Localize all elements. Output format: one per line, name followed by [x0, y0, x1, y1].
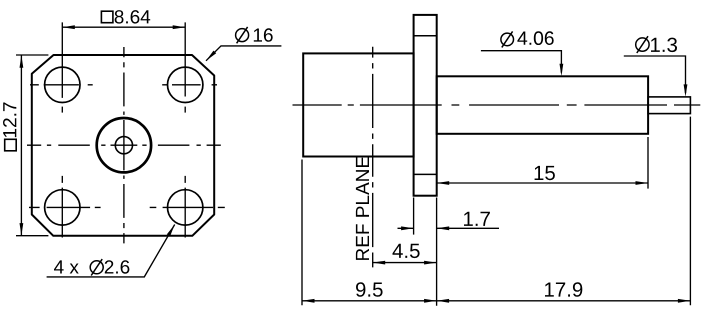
dimension 1.7 text — [464, 212, 490, 226]
center conductor outer circle — [97, 118, 151, 172]
label dia16 arrow — [206, 51, 216, 61]
dimension 1.7 extension line — [413, 198, 415, 235]
flange chamfer line top — [414, 35, 437, 37]
flange chamfer line bottom — [414, 173, 437, 175]
dimension 15 text — [535, 166, 555, 180]
dimension 1.7 left leader — [398, 227, 414, 229]
mounting hole TL — [45, 67, 80, 102]
hole BL horizontal center mark — [29, 206, 101, 208]
center conductor inner circle — [115, 137, 132, 154]
dimension 17.9 dimension line — [437, 300, 691, 302]
label 4x dia2.6 text part2 — [105, 260, 130, 274]
label dia1.3 arrow — [684, 84, 688, 97]
dimension 17.9 right arrow — [678, 299, 691, 303]
dimension 4.5 left arrow — [373, 261, 386, 265]
dimension 1.7 right leader — [437, 227, 499, 229]
dimension 1.7 left arrow — [401, 226, 414, 230]
label dia16 text — [254, 28, 273, 42]
connector body side view — [303, 53, 413, 156]
dimension 4.5 dimension line — [373, 262, 437, 264]
hole BR horizontal center mark — [150, 206, 225, 208]
dimension 17.9 left arrow — [437, 299, 450, 303]
main horizontal centerline — [293, 104, 701, 106]
bottom dimensions extension lines — [302, 117, 690, 306]
ref plane centerline — [372, 47, 374, 268]
dimension 15 right arrow — [636, 181, 649, 185]
dimension 9.5 text — [356, 282, 383, 297]
dimension 9.5 left arrow — [302, 299, 315, 303]
hole BL vertical center mark — [61, 176, 63, 238]
dimension 8.64 extension lines — [62, 22, 185, 98]
dimension 12.7 top arrow — [20, 55, 24, 67]
mounting hole BR — [168, 190, 203, 225]
hole TR vertical dash below — [184, 107, 186, 113]
flange front view outline — [32, 55, 214, 236]
flange horizontal centerline — [27, 144, 221, 146]
hole BR vertical center mark — [184, 176, 186, 238]
dimension 12.7 dimension line — [20, 55, 22, 235]
dimension 12.7 text — [3, 103, 16, 138]
mounting hole TR — [168, 67, 203, 102]
dimension 15 dimension line — [437, 182, 648, 184]
ref plane text — [356, 157, 369, 260]
dimension 15 left arrow — [437, 181, 450, 185]
dimension 9.5 right arrow — [424, 299, 437, 303]
pin dia 1.3 side view — [648, 97, 690, 114]
label dia1.3 text — [651, 38, 677, 53]
label dia1.3 leader — [624, 56, 686, 93]
dimension 9.5 dimension line — [302, 300, 437, 302]
hole TR horizontal center mark — [162, 84, 217, 86]
hole TL horizontal center mark — [30, 84, 93, 86]
label 4x dia2.6 diameter symbol — [90, 259, 103, 275]
dimension 8.64 right arrow — [173, 25, 186, 29]
dimension 17.9 text — [545, 282, 582, 297]
label 4x dia2.6 arrow — [167, 225, 175, 237]
label dia4.06 text — [517, 31, 553, 45]
label 4x dia2.6 leader — [47, 225, 175, 277]
dimension 8.64 square symbol — [101, 11, 113, 23]
dimension 4.5 text — [393, 244, 420, 258]
label dia4.06 diameter symbol — [501, 31, 514, 47]
dimension 12.7 bottom arrow — [20, 223, 24, 236]
dimension 8.64 dimension line — [62, 26, 185, 28]
flange vertical centerline — [123, 47, 125, 243]
dimension 15 extension line — [647, 137, 649, 189]
barrel dia 4.06 side view — [437, 76, 648, 134]
dimension 12.7 extension lines — [16, 55, 48, 236]
label dia16 leader — [206, 46, 281, 61]
label dia4.06 leader — [481, 51, 562, 73]
dimension 1.7 right arrow — [437, 226, 450, 230]
dimension 8.64 left arrow — [62, 25, 75, 29]
dimension 4.5 right arrow — [424, 261, 437, 265]
label 4x dia2.6 text part1 — [54, 260, 79, 273]
label dia1.3 diameter symbol — [636, 36, 649, 53]
hole TL vertical dash below — [61, 107, 63, 113]
dimension 8.64 text — [115, 10, 151, 24]
flange side view — [414, 15, 437, 196]
mounting hole BL — [45, 190, 80, 225]
label dia4.06 arrow — [560, 64, 564, 77]
dimension 12.7 square symbol — [5, 139, 17, 151]
label dia16 diameter symbol — [236, 27, 249, 43]
